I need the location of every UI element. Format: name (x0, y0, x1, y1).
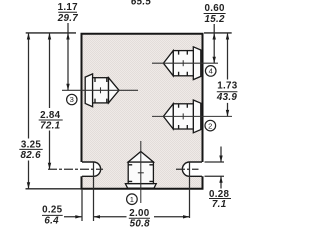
svg-text:1.73: 1.73 (217, 80, 238, 91)
svg-text:2: 2 (208, 121, 212, 130)
svg-text:1: 1 (130, 195, 134, 204)
svg-text:72.1: 72.1 (40, 121, 60, 132)
svg-text:4: 4 (209, 67, 213, 76)
svg-text:82.6: 82.6 (21, 150, 42, 161)
svg-text:2.00: 2.00 (129, 208, 150, 219)
svg-text:2.84: 2.84 (40, 110, 61, 121)
svg-text:0.25: 0.25 (42, 205, 63, 216)
svg-text:15.2: 15.2 (204, 14, 225, 25)
svg-text:50.8: 50.8 (130, 219, 151, 228)
svg-text:43.9: 43.9 (216, 92, 238, 103)
svg-text:7.1: 7.1 (212, 199, 227, 210)
svg-text:29.7: 29.7 (57, 13, 79, 24)
svg-text:3.25: 3.25 (21, 139, 42, 150)
svg-text:3: 3 (70, 95, 74, 104)
svg-text:65.5: 65.5 (131, 0, 152, 8)
svg-text:0.60: 0.60 (204, 3, 225, 14)
svg-text:6.4: 6.4 (44, 215, 59, 226)
svg-text:1.17: 1.17 (58, 2, 79, 13)
